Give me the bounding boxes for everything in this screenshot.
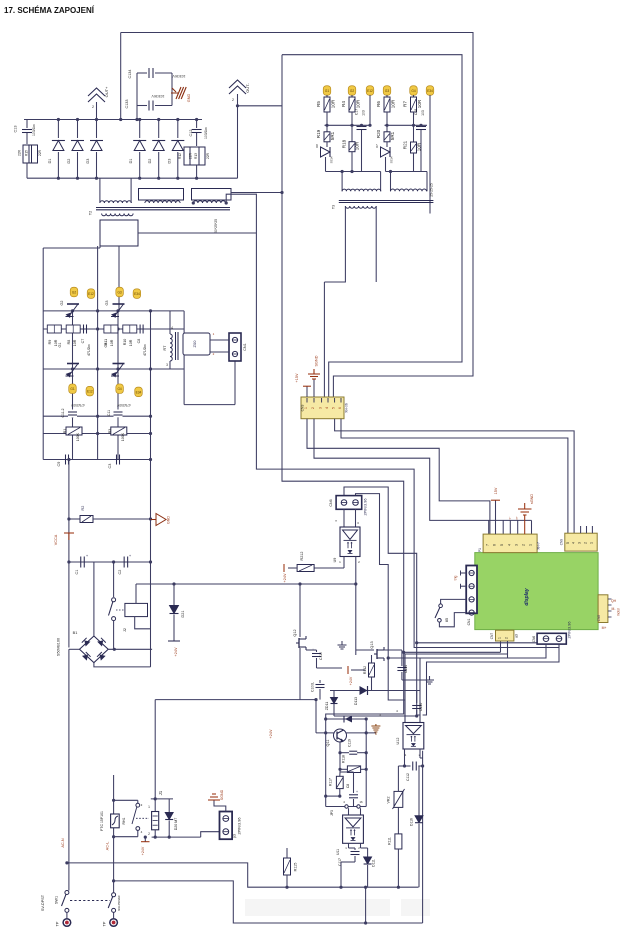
svg-text:SW1: SW1 bbox=[55, 896, 59, 904]
svg-text:475/250V: 475/250V bbox=[70, 403, 85, 407]
svg-text:Q11: Q11 bbox=[326, 740, 330, 747]
svg-text:XH-7: XH-7 bbox=[537, 542, 541, 550]
svg-text:2: 2 bbox=[522, 544, 526, 546]
svg-text:+24V: +24V bbox=[349, 676, 353, 685]
svg-text:R13: R13 bbox=[194, 153, 198, 159]
svg-text:C134: C134 bbox=[128, 69, 132, 78]
svg-text:G4: G4 bbox=[117, 387, 121, 391]
svg-text:ZD11: ZD11 bbox=[325, 702, 329, 711]
svg-text:G2: G2 bbox=[60, 300, 64, 305]
svg-text:M-: M- bbox=[612, 607, 616, 611]
svg-text:G3: G3 bbox=[105, 300, 109, 305]
svg-text:CN9: CN9 bbox=[560, 539, 564, 546]
svg-text:G3: G3 bbox=[385, 89, 389, 93]
svg-text:10R: 10R bbox=[417, 99, 422, 108]
svg-text:R15: R15 bbox=[25, 150, 29, 156]
svg-text:o+: o+ bbox=[515, 516, 519, 520]
svg-text:R2: R2 bbox=[81, 506, 85, 511]
svg-text:E12: E12 bbox=[87, 390, 93, 394]
svg-text:motor: motor bbox=[617, 607, 621, 616]
svg-text:G1: G1 bbox=[58, 342, 62, 347]
svg-text:C17: C17 bbox=[355, 109, 359, 115]
svg-text:CN1: CN1 bbox=[243, 343, 247, 351]
svg-text:7: 7 bbox=[486, 544, 490, 546]
svg-text:4: 4 bbox=[507, 544, 511, 546]
svg-text:R7: R7 bbox=[403, 101, 408, 107]
svg-text:2: 2 bbox=[505, 637, 509, 639]
svg-text:RT: RT bbox=[163, 345, 167, 351]
svg-text:SS14: SS14 bbox=[330, 156, 334, 163]
svg-text:U9: U9 bbox=[333, 558, 337, 563]
svg-text:R5: R5 bbox=[316, 101, 321, 107]
svg-text:5: 5 bbox=[566, 542, 570, 544]
svg-text:1: 1 bbox=[148, 805, 150, 809]
svg-text:3: 3 bbox=[319, 407, 323, 409]
svg-text:R20: R20 bbox=[376, 129, 381, 138]
svg-text:6: 6 bbox=[493, 544, 497, 546]
svg-text:16: 16 bbox=[359, 800, 363, 804]
svg-text:C110: C110 bbox=[319, 652, 323, 660]
svg-text:C133: C133 bbox=[125, 99, 129, 108]
svg-text:OUT+: OUT+ bbox=[104, 86, 109, 97]
svg-text:GND: GND bbox=[187, 94, 191, 103]
svg-text:2PIN/3.96: 2PIN/3.96 bbox=[568, 622, 572, 639]
svg-text:25-25-25: 25-25-25 bbox=[430, 183, 434, 197]
svg-text:5: 5 bbox=[500, 544, 504, 546]
svg-text:GND: GND bbox=[167, 516, 171, 524]
svg-text:C100L: C100L bbox=[311, 682, 315, 692]
svg-text:1: 1 bbox=[529, 544, 533, 546]
svg-text:E34: E34 bbox=[136, 390, 142, 394]
svg-text:N/A 250VAC: N/A 250VAC bbox=[117, 895, 121, 911]
svg-text:100K: 100K bbox=[76, 432, 80, 441]
svg-text:R9: R9 bbox=[48, 340, 52, 345]
svg-text:XH-06: XH-06 bbox=[345, 403, 349, 413]
svg-text:C9: C9 bbox=[57, 462, 61, 467]
svg-text:R6: R6 bbox=[376, 101, 381, 107]
svg-text:+24V: +24V bbox=[283, 573, 287, 582]
svg-text:R115: R115 bbox=[294, 863, 298, 872]
svg-text:R117: R117 bbox=[329, 778, 333, 786]
svg-text:sGND: sGND bbox=[530, 494, 534, 505]
svg-text:10R: 10R bbox=[391, 99, 396, 108]
svg-text:T3: T3 bbox=[332, 205, 336, 209]
svg-text:RH1: RH1 bbox=[122, 817, 126, 824]
svg-text:AC-L: AC-L bbox=[106, 842, 110, 851]
svg-text:E34: E34 bbox=[427, 89, 433, 93]
svg-text:E12: E12 bbox=[88, 292, 94, 296]
svg-text:100K: 100K bbox=[121, 432, 125, 441]
svg-text:2: 2 bbox=[584, 542, 588, 544]
svg-text:22R: 22R bbox=[38, 149, 42, 156]
svg-text:R18: R18 bbox=[342, 139, 347, 148]
svg-text:471/2kv: 471/2kv bbox=[143, 344, 147, 356]
svg-text:R8: R8 bbox=[67, 340, 71, 345]
svg-text:10R: 10R bbox=[129, 339, 133, 346]
svg-text:C130: C130 bbox=[419, 703, 423, 712]
svg-text:E34: E34 bbox=[134, 292, 140, 296]
svg-text:D3: D3 bbox=[167, 159, 171, 164]
svg-text:R10: R10 bbox=[123, 339, 127, 346]
svg-text:TP: TP bbox=[103, 921, 107, 926]
svg-text:R3: R3 bbox=[108, 429, 112, 434]
svg-text:G3: G3 bbox=[117, 290, 121, 294]
svg-text:SS14: SS14 bbox=[390, 156, 394, 163]
svg-text:1: 1 bbox=[498, 637, 502, 639]
svg-text:G1: G1 bbox=[325, 89, 329, 93]
svg-text:103/1kv: 103/1kv bbox=[204, 127, 208, 139]
svg-text:o-: o- bbox=[507, 517, 511, 520]
svg-text:15V: 15V bbox=[494, 487, 498, 494]
svg-text:+24V: +24V bbox=[269, 729, 273, 738]
svg-text:10R: 10R bbox=[355, 141, 360, 150]
svg-text:C2: C2 bbox=[118, 570, 122, 575]
svg-text:P1: P1 bbox=[478, 548, 482, 552]
svg-text:JP3: JP3 bbox=[330, 810, 334, 816]
svg-text:4: 4 bbox=[171, 326, 173, 330]
svg-text:3: 3 bbox=[578, 542, 582, 544]
svg-text:Z00: Z00 bbox=[192, 340, 197, 348]
svg-text:Q12: Q12 bbox=[293, 629, 297, 636]
svg-text:QH: QH bbox=[611, 599, 617, 603]
svg-text:CN5: CN5 bbox=[597, 615, 601, 622]
svg-text:CN7: CN7 bbox=[490, 633, 494, 640]
svg-text:CN3: CN3 bbox=[301, 405, 305, 412]
svg-text:5: 5 bbox=[332, 407, 336, 409]
svg-text:C119: C119 bbox=[348, 739, 352, 747]
svg-text:4: 4 bbox=[572, 542, 576, 544]
svg-text:5R1: 5R1 bbox=[330, 131, 335, 140]
svg-text:D3: D3 bbox=[86, 159, 90, 164]
svg-text:22R: 22R bbox=[18, 149, 22, 156]
svg-text:1: 1 bbox=[589, 542, 593, 544]
svg-text:103: 103 bbox=[362, 110, 366, 116]
svg-text:CN6: CN6 bbox=[532, 636, 536, 643]
svg-text:+24V: +24V bbox=[174, 647, 178, 656]
svg-text:50*25*25: 50*25*25 bbox=[214, 219, 218, 233]
svg-text:TP: TP bbox=[56, 921, 60, 926]
svg-text:C112: C112 bbox=[406, 773, 410, 781]
svg-text:G2: G2 bbox=[350, 89, 354, 93]
svg-text:T2: T2 bbox=[89, 211, 93, 215]
svg-text:D2: D2 bbox=[67, 159, 71, 164]
svg-text:R19: R19 bbox=[316, 129, 321, 138]
svg-text:+15V: +15V bbox=[295, 373, 299, 382]
svg-text:R12: R12 bbox=[178, 153, 182, 159]
svg-text:2: 2 bbox=[232, 98, 234, 102]
svg-text:1: 1 bbox=[304, 407, 308, 409]
svg-text:B1: B1 bbox=[73, 631, 78, 635]
svg-text:4: 4 bbox=[325, 407, 329, 409]
svg-text:5R1: 5R1 bbox=[390, 131, 395, 140]
svg-text:D2: D2 bbox=[148, 159, 152, 164]
svg-text:Q13: Q13 bbox=[370, 641, 374, 648]
svg-text:471/2kv: 471/2kv bbox=[87, 344, 91, 356]
svg-text:R21: R21 bbox=[403, 140, 408, 149]
svg-text:D111: D111 bbox=[372, 859, 376, 867]
svg-text:475/250V: 475/250V bbox=[116, 403, 131, 407]
svg-text:CN6: CN6 bbox=[329, 499, 333, 506]
svg-text:2PIN/3.96: 2PIN/3.96 bbox=[238, 818, 242, 835]
svg-text:VCCA: VCCA bbox=[54, 534, 58, 545]
svg-text:22R: 22R bbox=[189, 152, 193, 159]
svg-text:OUT-: OUT- bbox=[245, 83, 250, 93]
svg-text:3: 3 bbox=[166, 363, 168, 367]
svg-text:a3: a3 bbox=[515, 634, 519, 638]
svg-text:D1: D1 bbox=[48, 159, 52, 164]
svg-text:SGND: SGND bbox=[315, 355, 319, 366]
svg-text:display: display bbox=[524, 588, 530, 605]
svg-text:SV-DPST: SV-DPST bbox=[41, 894, 45, 911]
svg-text:22R: 22R bbox=[206, 152, 210, 159]
svg-text:G1: G1 bbox=[70, 387, 74, 391]
svg-text:C11: C11 bbox=[107, 410, 111, 416]
svg-text:17. SCHÉMA ZAPOJENÍ: 17. SCHÉMA ZAPOJENÍ bbox=[4, 6, 95, 15]
svg-text:R11: R11 bbox=[104, 339, 108, 345]
svg-text:PTC 15P101: PTC 15P101 bbox=[100, 811, 104, 831]
svg-text:D116: D116 bbox=[410, 818, 414, 826]
svg-text:+: + bbox=[356, 790, 358, 794]
svg-text:C12: C12 bbox=[189, 130, 193, 137]
svg-text:103/3KV: 103/3KV bbox=[151, 94, 165, 98]
svg-text:10R: 10R bbox=[356, 99, 361, 108]
svg-text:C7: C7 bbox=[81, 339, 85, 344]
svg-text:SGND: SGND bbox=[220, 789, 224, 800]
svg-text:VR2: VR2 bbox=[387, 797, 391, 804]
svg-text:C8: C8 bbox=[137, 339, 141, 344]
svg-text:E12: E12 bbox=[367, 89, 373, 93]
svg-text:J1: J1 bbox=[158, 790, 163, 795]
svg-text:D1: D1 bbox=[129, 159, 133, 164]
svg-text:+24V: +24V bbox=[141, 846, 145, 855]
svg-text:2: 2 bbox=[92, 105, 94, 109]
svg-text:D113: D113 bbox=[354, 697, 358, 705]
svg-text:G4: G4 bbox=[411, 89, 415, 93]
svg-text:C1: C1 bbox=[75, 570, 79, 575]
svg-text:R212: R212 bbox=[300, 551, 304, 560]
svg-text:trig: trig bbox=[454, 576, 458, 581]
svg-text:CN1: CN1 bbox=[467, 619, 471, 626]
svg-text:J2: J2 bbox=[123, 628, 127, 632]
svg-text:R1: R1 bbox=[63, 429, 67, 434]
svg-text:6: 6 bbox=[338, 407, 342, 409]
svg-text:2: 2 bbox=[311, 407, 315, 409]
svg-text:103/3KV: 103/3KV bbox=[172, 74, 186, 78]
svg-text:C114: C114 bbox=[404, 665, 408, 673]
svg-text:R4: R4 bbox=[341, 101, 346, 107]
svg-text:D20 M7: D20 M7 bbox=[174, 818, 178, 831]
svg-text:10R: 10R bbox=[54, 339, 58, 346]
svg-text:C11-2: C11-2 bbox=[61, 408, 65, 417]
svg-text:C18: C18 bbox=[414, 109, 418, 115]
svg-text:2PIN/3.96: 2PIN/3.96 bbox=[364, 499, 368, 516]
svg-text:103: 103 bbox=[421, 110, 425, 116]
svg-text:C13: C13 bbox=[14, 126, 18, 133]
svg-text:G2: G2 bbox=[72, 290, 76, 294]
svg-text:R111: R111 bbox=[388, 837, 392, 845]
svg-text:103/1kv: 103/1kv bbox=[32, 124, 36, 136]
svg-text:85: 85 bbox=[445, 618, 449, 622]
svg-text:3: 3 bbox=[515, 544, 519, 546]
svg-text:M+: M+ bbox=[602, 626, 607, 630]
svg-text:10R: 10R bbox=[73, 339, 77, 346]
svg-text:AC-N: AC-N bbox=[61, 838, 65, 848]
svg-text:10R: 10R bbox=[417, 142, 422, 151]
svg-text:C8: C8 bbox=[346, 784, 350, 788]
svg-text:D8: D8 bbox=[315, 144, 319, 148]
svg-text:U12: U12 bbox=[396, 738, 400, 745]
svg-text:D7: D7 bbox=[375, 144, 379, 148]
svg-text:10R: 10R bbox=[331, 99, 336, 108]
svg-text:U11: U11 bbox=[336, 849, 340, 855]
svg-text:R118: R118 bbox=[342, 755, 346, 763]
svg-text:p3: p3 bbox=[233, 834, 237, 838]
svg-text:2: 2 bbox=[148, 832, 150, 836]
svg-text:S50VB100: S50VB100 bbox=[57, 638, 61, 656]
svg-text:D21: D21 bbox=[181, 611, 185, 618]
svg-text:10R: 10R bbox=[110, 339, 114, 346]
svg-text:C3: C3 bbox=[108, 464, 112, 469]
